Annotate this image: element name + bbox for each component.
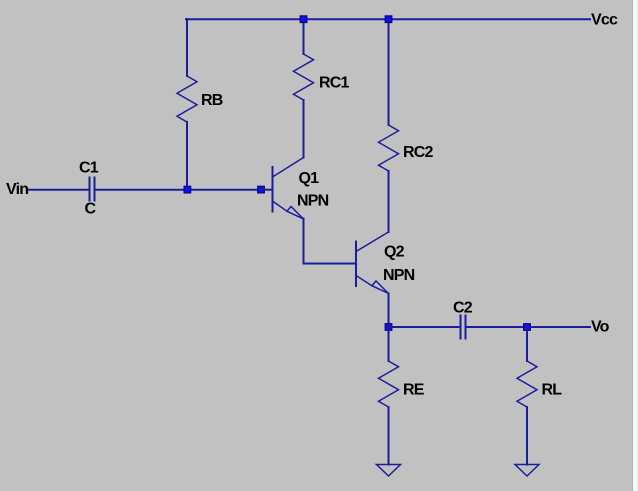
node: RC1 / Vcc junction (300, 16, 307, 23)
ground symbol (RL) (515, 465, 539, 477)
wire: Q2 emitter to output node (388, 294, 390, 328)
resistor RC2 (379, 125, 399, 171)
node: Q1 base pin (258, 186, 265, 193)
wire: Vin to C1 (29, 189, 89, 191)
wire: Q2 collector to RC2 (388, 171, 390, 232)
svg-text:Q1: Q1 (299, 170, 320, 187)
svg-text:C2: C2 (453, 300, 473, 317)
node: C2 / RL junction (524, 324, 531, 331)
svg-text:RE: RE (403, 382, 425, 399)
svg-text:Vin: Vin (6, 181, 28, 198)
svg-text:NPN: NPN (297, 193, 329, 210)
resistor RE (379, 361, 399, 407)
wire: C1 to Q1 base (95, 189, 261, 191)
wire: RE to ground (388, 407, 390, 465)
window edge strip (632, 0, 633, 491)
wire: RB to base node (186, 122, 188, 189)
wire: RC2 to Vcc rail (388, 19, 390, 125)
node: RB / base junction (184, 186, 191, 193)
svg-text:RL: RL (542, 382, 563, 399)
resistor RC1 (294, 54, 314, 100)
resistor RL (517, 361, 537, 407)
transistor Q2 (356, 232, 389, 294)
wire: RC1 to Vcc rail (303, 19, 305, 54)
svg-text:Vcc: Vcc (591, 12, 618, 29)
resistor RB (177, 76, 197, 122)
wire: node to Vo (527, 326, 590, 328)
wire: output node to RE (388, 327, 390, 361)
wire: Q1 collector to RC1 (303, 100, 305, 158)
wire: RL node down (526, 327, 528, 361)
wire: RB to Vcc rail (186, 19, 188, 76)
capacitor C2 (461, 316, 466, 339)
svg-text:NPN: NPN (383, 267, 415, 284)
svg-text:C: C (85, 201, 97, 218)
wire: Q1 emitter to Q2 base (304, 219, 357, 264)
svg-text:RC2: RC2 (403, 144, 434, 161)
wire: output node to C2 (389, 326, 461, 328)
wire: C2 to RL node (466, 326, 527, 328)
svg-text:Q2: Q2 (384, 244, 405, 261)
wire: Vcc top rail (186, 18, 590, 20)
transistor Q1 (261, 158, 304, 220)
capacitor C1 (90, 178, 95, 201)
wire: RL to ground (526, 407, 528, 465)
svg-text:RC1: RC1 (319, 75, 350, 92)
svg-text:C1: C1 (79, 160, 99, 177)
svg-text:RB: RB (201, 92, 223, 109)
node: emitter / output junction (385, 324, 392, 331)
node: RC2 / Vcc junction (385, 16, 392, 23)
svg-text:Vo: Vo (591, 319, 610, 336)
ground symbol (RE) (377, 465, 401, 477)
